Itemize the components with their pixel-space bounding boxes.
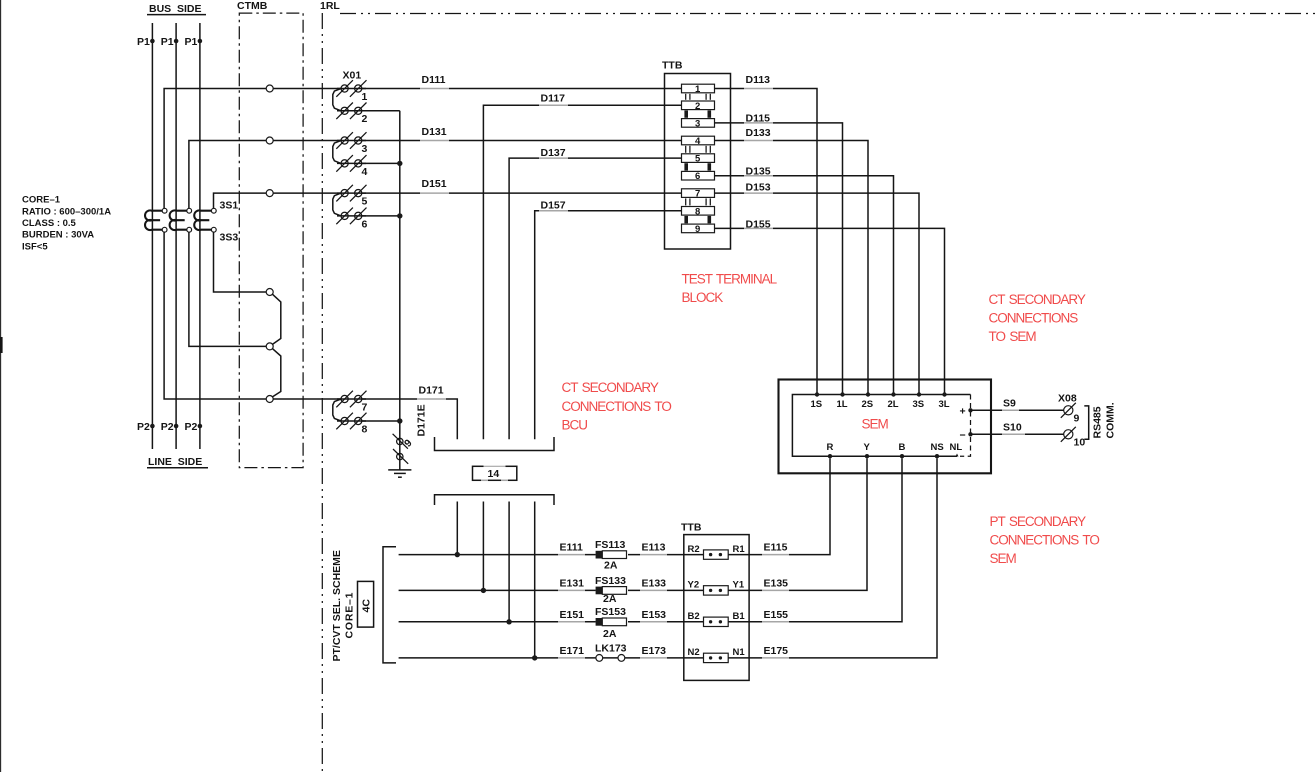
svg-text:9: 9 (1074, 413, 1080, 425)
svg-text:TTB: TTB (662, 60, 683, 72)
X08 terminal 9 (1064, 406, 1073, 415)
SEM inner module dashed right edge (960, 395, 971, 457)
wire D135: TTB:6 to SEM 2L (715, 176, 894, 395)
wire E133 (628, 589, 704, 591)
wire PT R drop (456, 502, 458, 555)
SEM pin 1L (840, 392, 844, 396)
closed link 8-9 (684, 216, 688, 223)
bus phase line 3 (199, 23, 201, 449)
svg-text:Y: Y (864, 442, 871, 453)
svg-text:CT SECONDARY: CT SECONDARY (989, 292, 1086, 307)
svg-text:TO SEM: TO SEM (989, 329, 1037, 344)
svg-text:E151: E151 (560, 609, 585, 621)
earth link lower contact (397, 453, 403, 459)
svg-text:R: R (827, 442, 834, 453)
earth bus vertical (399, 111, 401, 470)
svg-text:E113: E113 (642, 542, 666, 554)
svg-text:E133: E133 (642, 577, 667, 589)
CTMB bushing row5 (266, 190, 273, 197)
TTB terminal B (704, 617, 729, 626)
closed link 2-3 (684, 110, 688, 117)
svg-text:P2: P2 (137, 421, 150, 433)
svg-text:2: 2 (695, 101, 700, 112)
SEM outer case (779, 380, 992, 474)
svg-text:P2: P2 (161, 421, 174, 433)
junction X01:8 (397, 418, 402, 423)
CTMB star bushing 1 (266, 289, 273, 296)
wire D133: TTB:4 to SEM 2S (715, 141, 869, 395)
star link bushing1-bushing2 (272, 294, 280, 344)
svg-text:2L: 2L (888, 399, 899, 410)
wire star point to X01:7 (273, 398, 341, 400)
svg-text:B: B (899, 442, 906, 453)
svg-text:CONNECTIONS TO: CONNECTIONS TO (990, 533, 1100, 548)
bus phase line 2 (175, 23, 177, 449)
svg-text:LINE SIDE: LINE SIDE (148, 456, 202, 468)
svg-text:P1: P1 (185, 36, 198, 48)
wire E171 row (399, 657, 596, 659)
svg-text:PT SECONDARY: PT SECONDARY (990, 514, 1087, 529)
TTB terminal 6 (682, 171, 715, 180)
SEM pin 1S (815, 392, 819, 396)
TTB terminal 3 (682, 119, 715, 128)
svg-text:−: − (960, 429, 966, 441)
wire E113: fuse to TTB R2 (628, 554, 704, 556)
SEM pin 3S (917, 392, 921, 396)
svg-text:3: 3 (362, 143, 368, 155)
svg-text:B1: B1 (733, 611, 746, 622)
wire S9 (971, 409, 1064, 411)
svg-text:D137: D137 (541, 147, 566, 159)
svg-text:P1: P1 (137, 36, 150, 48)
SEM pin 2L (891, 392, 895, 396)
open link 4-5 (686, 146, 711, 153)
svg-text:E173: E173 (642, 645, 667, 657)
svg-text:8: 8 (362, 423, 368, 435)
svg-text:P1: P1 (161, 36, 174, 48)
wire E173 (628, 657, 704, 659)
CTMB bushing row3 (266, 137, 273, 144)
CTMB star bushing 3 (266, 396, 273, 403)
closed link 5-6 (684, 163, 688, 170)
junction X01:6 (397, 213, 402, 218)
svg-text:E131: E131 (560, 577, 585, 589)
wire X01:4 to earth bus (362, 162, 400, 164)
wire D171: X01:7 to BCU cable (362, 399, 458, 439)
svg-text:BURDEN : 30VA: BURDEN : 30VA (22, 230, 94, 241)
svg-text:D157: D157 (541, 200, 566, 212)
BCU cable bracket (upper) (435, 437, 555, 451)
svg-text:LK173: LK173 (595, 642, 627, 654)
PT group bracket (383, 547, 396, 663)
X01 terminal pair 5-6 (333, 185, 368, 231)
SEM pin R (828, 454, 832, 458)
CTMB boundary box (dash-dot) (239, 13, 303, 468)
wire E115: TTB R1 to SEM R (728, 458, 830, 554)
svg-text:D155: D155 (746, 218, 771, 230)
wire PT Y drop (482, 502, 484, 591)
svg-text:Y2: Y2 (688, 580, 700, 591)
svg-text:Y1: Y1 (733, 580, 745, 591)
svg-text:D113: D113 (746, 74, 771, 86)
svg-text:NL: NL (950, 442, 963, 453)
PT cable bracket (lower) (435, 495, 555, 505)
SEM inner module (792, 395, 970, 457)
svg-text:14: 14 (488, 468, 500, 480)
svg-text:3: 3 (695, 118, 700, 129)
svg-text:D131: D131 (422, 126, 447, 138)
svg-text:D135: D135 (746, 165, 771, 177)
svg-text:RS485: RS485 (1092, 406, 1104, 438)
TTB terminal 9 (682, 224, 715, 233)
SEM pin Y (865, 454, 869, 458)
wire E111 row (399, 554, 596, 556)
SEM pin 3L (942, 392, 946, 396)
CT coil T3 (194, 210, 211, 230)
svg-text:RATIO : 600–300/1A: RATIO : 600–300/1A (22, 206, 111, 217)
CTMB bushing row1 (266, 85, 273, 92)
open link 1-2 (686, 94, 711, 100)
1RL horizontal boundary (dash-dot-dot) (340, 13, 1316, 15)
svg-text:6: 6 (362, 218, 368, 230)
svg-text:FS133: FS133 (595, 575, 626, 587)
TTB terminal 4 (682, 136, 715, 145)
wire PT N drop (534, 502, 536, 658)
TTB terminal 5 (682, 154, 715, 163)
wire D137: TTB:5 to BCU cable (509, 158, 681, 439)
svg-text:1S: 1S (811, 399, 823, 410)
svg-text:2A: 2A (604, 560, 618, 572)
wire D113: TTB:1 to SEM 1S (715, 89, 818, 395)
svg-text:D151: D151 (422, 178, 447, 190)
wire E131 row (399, 589, 596, 591)
svg-text:D171: D171 (419, 385, 444, 397)
svg-text:8: 8 (695, 206, 700, 217)
TTB terminal 7 (682, 189, 715, 198)
svg-text:10: 10 (1074, 437, 1086, 449)
wire CT1 S3 down-lead to star point (164, 232, 266, 399)
bus phase line 1 (151, 23, 153, 449)
svg-text:E135: E135 (764, 577, 789, 589)
svg-text:FS153: FS153 (595, 606, 626, 618)
TTB lower outline (684, 535, 749, 681)
wire E153 (628, 621, 704, 623)
wire CT3 S3 (3S3) down-lead to star point (214, 232, 267, 292)
svg-text:D111: D111 (422, 74, 446, 86)
svg-text:1: 1 (362, 91, 368, 103)
TTB terminal 1 (682, 84, 715, 93)
svg-text:B2: B2 (688, 611, 700, 622)
SEM pin NS (935, 454, 939, 458)
wire S10 (971, 433, 1064, 435)
wire D157: TTB:8 to BCU cable (535, 211, 682, 439)
star link bushing2-bushing3 (272, 349, 280, 397)
wire D117: TTB:2 to BCU cable (483, 105, 681, 439)
svg-text:2A: 2A (603, 593, 617, 605)
wire E135: TTB Y1 to SEM Y (728, 458, 867, 590)
svg-text:E171: E171 (560, 645, 585, 657)
wire CT2 S3 down-lead to star point (189, 232, 266, 346)
svg-text:X01: X01 (343, 70, 362, 82)
SEM pin 2S (866, 392, 870, 396)
X01 terminal pair 7-8 (333, 391, 368, 436)
CT coil T2 (170, 210, 187, 230)
svg-text:4: 4 (695, 136, 701, 147)
ground (388, 469, 411, 471)
wire D115: TTB:3 to SEM 1L (715, 123, 843, 395)
svg-text:N1: N1 (733, 647, 746, 658)
4C box (rotated tag) (358, 581, 374, 627)
cable number 14 box (473, 466, 517, 480)
svg-text:PT/CVT SEL. SCHEME: PT/CVT SEL. SCHEME (331, 550, 343, 661)
svg-text:P2: P2 (185, 421, 198, 433)
svg-text:D171E: D171E (416, 404, 428, 436)
svg-text:SEM: SEM (990, 551, 1017, 566)
svg-text:D153: D153 (746, 181, 771, 193)
svg-text:CORE–1: CORE–1 (22, 195, 61, 206)
X01 terminal pair 1-2 (333, 80, 368, 125)
svg-text:R2: R2 (688, 544, 700, 555)
TTB outline (665, 74, 731, 250)
svg-text:X08: X08 (1058, 393, 1077, 405)
X08 terminal 10 (1064, 430, 1073, 439)
wire X01:8 to earth bus (362, 420, 400, 422)
svg-text:5: 5 (695, 154, 701, 165)
svg-text:1RL: 1RL (320, 0, 340, 12)
wire X01:6 to earth bus (362, 215, 400, 217)
svg-text:3S1: 3S1 (220, 200, 239, 212)
wire X01:2 to earth bus (362, 110, 400, 112)
svg-text:SEM: SEM (862, 417, 889, 432)
TTB terminal N (704, 653, 729, 662)
TTB terminal R (704, 550, 729, 559)
svg-text:R1: R1 (733, 544, 746, 555)
svg-text:9: 9 (695, 224, 700, 235)
svg-text:ISF<5: ISF<5 (22, 241, 48, 252)
svg-text:BLOCK: BLOCK (682, 290, 724, 305)
open link 7-8 (686, 198, 711, 205)
TTB terminal 2 (682, 101, 715, 110)
X01 terminal pair 3-4 (333, 132, 368, 178)
svg-text:E175: E175 (764, 645, 789, 657)
svg-text:2A: 2A (603, 628, 617, 640)
svg-text:BCU: BCU (562, 417, 588, 432)
wire CT3 S1 (3S1) up-lead (214, 193, 342, 209)
svg-text:CLASS : 0.5: CLASS : 0.5 (22, 218, 77, 229)
svg-text:TTB: TTB (681, 522, 702, 534)
sheet left border (0, 0, 2, 772)
svg-text:COMM.: COMM. (1105, 402, 1117, 438)
svg-text:E111: E111 (560, 542, 584, 554)
wire D111: X01:1 to TTB:1 (362, 88, 682, 90)
svg-text:FS113: FS113 (595, 539, 626, 551)
svg-text:CT SECONDARY: CT SECONDARY (562, 380, 659, 395)
svg-text:E115: E115 (764, 542, 788, 554)
SEM pin B (900, 454, 904, 458)
TTB terminal Y (704, 586, 729, 595)
svg-text:4C: 4C (361, 599, 373, 613)
svg-text:E153: E153 (642, 609, 667, 621)
svg-text:D133: D133 (746, 127, 771, 139)
svg-text:1L: 1L (837, 399, 848, 410)
svg-text:+: + (960, 406, 966, 418)
svg-text:CORE–1: CORE–1 (344, 592, 356, 639)
junction X01:4 (397, 161, 402, 166)
svg-text:D117: D117 (541, 93, 566, 105)
svg-text:S10: S10 (1003, 422, 1022, 434)
svg-text:NS: NS (931, 442, 944, 453)
svg-text:5: 5 (362, 196, 368, 208)
svg-text:3S: 3S (913, 399, 925, 410)
wire E175: TTB N1 to SEM NS (728, 458, 937, 658)
TTB terminal 8 (682, 207, 715, 216)
wire CT1 S1 up-lead (164, 89, 341, 209)
svg-text:7: 7 (695, 189, 700, 200)
CTMB star bushing 2 (266, 343, 273, 350)
RS485 bracket (1084, 406, 1088, 439)
svg-text:3L: 3L (939, 399, 950, 410)
wire D155: TTB:9 to SEM 3L (715, 228, 945, 394)
svg-text:BUS SIDE: BUS SIDE (149, 3, 202, 15)
wire CT2 S1 up-lead (189, 141, 341, 209)
svg-text:2S: 2S (862, 399, 874, 410)
wire E151 row (399, 621, 596, 623)
1RL vertical boundary (dash-dot) (321, 13, 323, 772)
wire D151: X01:5 to TTB:7 (362, 192, 682, 194)
wire D131: X01:3 to TTB:4 (362, 140, 682, 142)
svg-text:N2: N2 (688, 647, 700, 658)
wire E155: TTB B1 to SEM B (728, 458, 902, 621)
svg-text:CONNECTIONS TO: CONNECTIONS TO (562, 399, 672, 414)
svg-text:6: 6 (695, 171, 700, 182)
X01 terminal 9 (earth link) (397, 438, 403, 444)
svg-text:2: 2 (362, 113, 368, 125)
svg-text:9: 9 (402, 437, 415, 450)
svg-text:CTMB: CTMB (237, 0, 268, 12)
wire D153: TTB:7 to SEM 3S (715, 193, 920, 394)
svg-text:1: 1 (695, 84, 701, 95)
svg-text:E155: E155 (764, 609, 789, 621)
svg-text:CONNECTIONS: CONNECTIONS (989, 311, 1079, 326)
svg-text:S9: S9 (1003, 398, 1016, 410)
CT coil T1 (145, 210, 162, 230)
svg-text:7: 7 (362, 401, 368, 413)
svg-text:4: 4 (362, 166, 368, 178)
svg-text:TEST TERMINAL: TEST TERMINAL (682, 272, 778, 287)
svg-text:D115: D115 (746, 112, 771, 124)
wire PT B drop (508, 502, 510, 622)
svg-text:3S3: 3S3 (220, 232, 239, 244)
